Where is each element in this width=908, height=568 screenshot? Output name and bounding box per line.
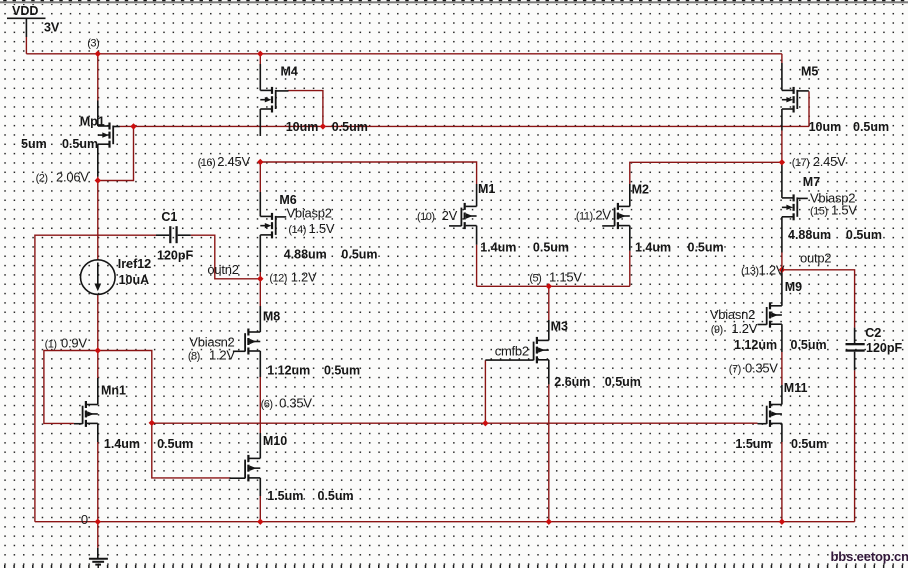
transistor M5 (PMOS) <box>782 63 809 131</box>
svg-text:1.2V: 1.2V <box>759 263 785 278</box>
svg-text:0.5um: 0.5um <box>341 248 377 262</box>
svg-text:1.4um: 1.4um <box>104 437 140 451</box>
wire M5 gate drop <box>808 91 810 126</box>
node (3) junction Mp1 <box>95 51 101 57</box>
transistor M10 (NMOS) <box>230 433 261 496</box>
wire ground stub <box>97 522 99 548</box>
ground symbol <box>89 548 108 565</box>
wire M10 source to ground rail <box>259 496 261 522</box>
svg-text:(15): (15) <box>810 206 828 218</box>
svg-text:(9): (9) <box>711 324 723 336</box>
node (2) junction <box>95 177 101 183</box>
wire branch to M10 gate <box>152 423 231 478</box>
wire Mp1 drain <box>97 54 99 101</box>
svg-text:M2: M2 <box>632 183 649 197</box>
transistor M7 (PMOS) <box>782 194 808 252</box>
svg-text:(7): (7) <box>729 364 741 376</box>
svg-text:(3): (3) <box>87 38 99 50</box>
junction Mp1 gate <box>130 123 136 129</box>
svg-text:(17): (17) <box>792 157 810 169</box>
svg-text:M9: M9 <box>785 280 802 294</box>
transistor Mn1 (NMOS) <box>74 378 98 442</box>
junction M4 gate <box>320 123 326 129</box>
node (9) 1.2V <box>711 321 758 336</box>
svg-text:0.5um: 0.5um <box>846 228 882 242</box>
wire M6 source / node (12) <box>259 272 261 306</box>
svg-text:10uA: 10uA <box>119 273 150 287</box>
wire Iref12 to node (1) <box>97 295 99 351</box>
wire M5 source to node (17) <box>781 131 783 163</box>
svg-text:(13): (13) <box>741 266 759 278</box>
transistor M4 (PMOS) <box>260 64 288 136</box>
transistor M3 (NMOS) <box>485 320 548 384</box>
wire M7 drain stub <box>781 162 783 198</box>
transistor Mp1 (PMOS) <box>98 101 120 177</box>
svg-text:C2: C2 <box>865 326 881 340</box>
svg-text:0.5um: 0.5um <box>324 364 360 378</box>
svg-text:VDD: VDD <box>12 4 38 18</box>
node (5) junction <box>546 283 552 289</box>
wire M4 drain <box>259 54 261 64</box>
transistor M6 (PMOS) <box>260 192 286 272</box>
wire node (5) <box>477 285 630 287</box>
svg-text:0.5um: 0.5um <box>332 120 368 134</box>
svg-text:1.2V: 1.2V <box>291 270 317 285</box>
svg-text:2.06V: 2.06V <box>56 170 89 185</box>
svg-text:2.6um: 2.6um <box>554 375 590 389</box>
transistor M9 (NMOS) <box>758 302 782 352</box>
svg-text:1.12um: 1.12um <box>734 338 777 352</box>
svg-text:0: 0 <box>81 512 88 527</box>
svg-text:1.5um: 1.5um <box>267 489 303 503</box>
svg-text:(6): (6) <box>261 399 273 411</box>
svg-text:M4: M4 <box>281 65 298 79</box>
node (14) 1.5V <box>288 221 334 236</box>
svg-text:0.5um: 0.5um <box>605 375 641 389</box>
capacitor C1 <box>156 226 191 243</box>
wire ground rail node 0 <box>35 521 855 523</box>
junction M4 drain <box>257 51 263 57</box>
node (13) junction outp2 <box>779 267 785 273</box>
wire C2 bottom to ground rail <box>854 370 856 521</box>
svg-text:M1: M1 <box>478 182 495 196</box>
wire M7 source to node (13) <box>781 253 783 270</box>
wire node (16) to M1 drain <box>260 162 476 184</box>
wire Mp1 gate-source loop node (2) <box>98 126 134 180</box>
wire Mp1 source to Iref12 <box>97 176 99 260</box>
transistor M8 (NMOS) <box>233 306 260 377</box>
svg-text:0.5um: 0.5um <box>791 437 827 451</box>
svg-text:0.35V: 0.35V <box>745 361 778 376</box>
node (8) 1.2V <box>188 348 235 363</box>
wire M4 gate loop <box>288 91 323 127</box>
node (12) 1.2V <box>269 270 317 285</box>
svg-text:1.4um: 1.4um <box>480 241 516 255</box>
svg-text:4.88um: 4.88um <box>284 248 327 262</box>
wire M8 source to M10 drain <box>259 377 261 433</box>
wire VDD drop to rail <box>25 37 27 54</box>
svg-text:Iref12: Iref12 <box>118 257 151 271</box>
svg-text:(14): (14) <box>288 224 306 236</box>
svg-text:Vbiasn2: Vbiasn2 <box>710 307 755 322</box>
junction cmfb2 <box>482 420 488 426</box>
svg-text:1.5V: 1.5V <box>309 221 335 236</box>
wire node (5) to M3 drain <box>548 286 550 320</box>
node (10) 2V <box>417 208 458 223</box>
svg-text:1.5V: 1.5V <box>831 203 857 218</box>
node (17) 2.45V <box>792 154 846 169</box>
transistor M2 (NMOS) <box>602 184 630 251</box>
svg-text:M10: M10 <box>263 434 287 448</box>
svg-text:2V: 2V <box>442 208 458 223</box>
wire outp2 to C2 <box>782 270 855 328</box>
svg-text:0.5um: 0.5um <box>157 437 193 451</box>
svg-text:10um: 10um <box>286 120 319 134</box>
node (15) 1.5V <box>810 203 857 218</box>
wire bias row to M11 gate <box>152 422 758 424</box>
svg-text:0.35V: 0.35V <box>279 396 312 411</box>
svg-text:120pF: 120pF <box>157 249 193 263</box>
node (6) 0.35V <box>261 396 313 411</box>
svg-text:0.5um: 0.5um <box>62 137 98 151</box>
node (1) junction <box>95 347 101 353</box>
svg-text:outp2: outp2 <box>800 251 831 266</box>
wire node (17) to M2 drain <box>630 162 782 184</box>
node (16) 2.45V <box>198 154 251 169</box>
svg-text:(10): (10) <box>417 211 435 223</box>
capacitor C2 <box>846 328 865 371</box>
wire M5 drain drop <box>781 54 783 63</box>
junction ground M10 <box>257 519 263 525</box>
svg-text:(2): (2) <box>36 173 48 185</box>
svg-text:5um: 5um <box>21 137 47 151</box>
svg-text:120pF: 120pF <box>866 341 902 355</box>
svg-text:outn2: outn2 <box>207 262 238 277</box>
wire M9 source to M11 drain <box>781 352 783 385</box>
wire outn2 to C1 <box>191 235 261 279</box>
wire node (3) top rail <box>26 53 782 55</box>
node (17) junction <box>779 159 785 165</box>
transistor M11 (NMOS) <box>758 385 782 442</box>
wire bias rail node (4) gates of Mp1/M4/M5 <box>120 125 810 127</box>
svg-text:C1: C1 <box>161 210 177 224</box>
wire Mn1 drain <box>97 351 99 379</box>
svg-text:bbs.eetop.cn: bbs.eetop.cn <box>831 549 908 564</box>
wire node (1) right branch <box>98 351 152 423</box>
svg-text:cmfb2: cmfb2 <box>495 344 529 359</box>
svg-text:0.5um: 0.5um <box>688 241 724 255</box>
node (5) 1.15V <box>529 270 582 285</box>
wire M3 gate drop cmfb2 <box>484 360 486 423</box>
wire M9 drain stub <box>781 270 783 306</box>
svg-text:10um: 10um <box>809 120 842 134</box>
node (12) junction outn2 <box>257 276 263 282</box>
svg-text:0.5um: 0.5um <box>318 489 354 503</box>
VDD supply symbol <box>7 18 46 37</box>
wire M1 source <box>476 245 478 287</box>
node (13) 1.2V <box>741 263 785 278</box>
svg-text:0.5um: 0.5um <box>853 120 889 134</box>
junction bias row <box>149 420 155 426</box>
svg-text:0.9V: 0.9V <box>61 336 87 351</box>
junction ground M3 <box>546 519 552 525</box>
wire M3 source to ground rail <box>548 384 550 521</box>
svg-text:1.15V: 1.15V <box>549 270 582 285</box>
wire node (1) left loop to Mn1 gate <box>44 351 98 424</box>
current source Iref12 <box>81 260 116 295</box>
wire M6 drain to node (16) <box>259 162 261 192</box>
svg-text:M7: M7 <box>803 175 820 189</box>
svg-text:2V: 2V <box>595 208 611 223</box>
junction ground M11 <box>779 519 785 525</box>
svg-text:1.2V: 1.2V <box>731 321 757 336</box>
svg-text:Vbiasp2: Vbiasp2 <box>287 206 332 221</box>
wire M11 source to ground rail <box>781 442 783 522</box>
svg-text:M3: M3 <box>551 320 568 334</box>
svg-text:M11: M11 <box>784 381 808 395</box>
svg-text:2.45V: 2.45V <box>813 154 846 169</box>
svg-text:1.2V: 1.2V <box>209 348 235 363</box>
svg-text:1.4um: 1.4um <box>635 241 671 255</box>
svg-text:Mn1: Mn1 <box>101 384 126 398</box>
node (11) 2V <box>576 208 611 223</box>
svg-text:Mp1: Mp1 <box>80 115 105 129</box>
wire Mn1 source to ground rail <box>97 442 99 522</box>
node (16) junction <box>257 159 263 165</box>
svg-text:(12): (12) <box>269 273 287 285</box>
svg-text:(5): (5) <box>529 273 541 285</box>
node (1) 0.9V <box>45 336 88 351</box>
svg-text:3V: 3V <box>44 21 60 35</box>
svg-text:2.45V: 2.45V <box>217 154 250 169</box>
svg-text:(16): (16) <box>198 157 216 169</box>
svg-text:1.12um: 1.12um <box>267 364 310 378</box>
svg-text:M5: M5 <box>801 65 818 79</box>
svg-text:M8: M8 <box>263 310 280 324</box>
junction ground Mn1 <box>95 519 101 525</box>
svg-text:0.5um: 0.5um <box>791 338 827 352</box>
node (7) 0.35V <box>729 361 779 376</box>
svg-text:(1): (1) <box>45 339 57 351</box>
wire C1 left to ground rail <box>35 235 156 522</box>
svg-text:(11): (11) <box>576 211 593 223</box>
wire M2 source <box>629 251 631 287</box>
svg-text:4.88um: 4.88um <box>788 228 831 242</box>
transistor M1 (NMOS) <box>449 184 477 245</box>
svg-text:0.5um: 0.5um <box>533 241 569 255</box>
svg-text:1.5um: 1.5um <box>735 437 771 451</box>
svg-text:(8): (8) <box>188 351 200 363</box>
node (2) 2.06V <box>36 170 90 185</box>
